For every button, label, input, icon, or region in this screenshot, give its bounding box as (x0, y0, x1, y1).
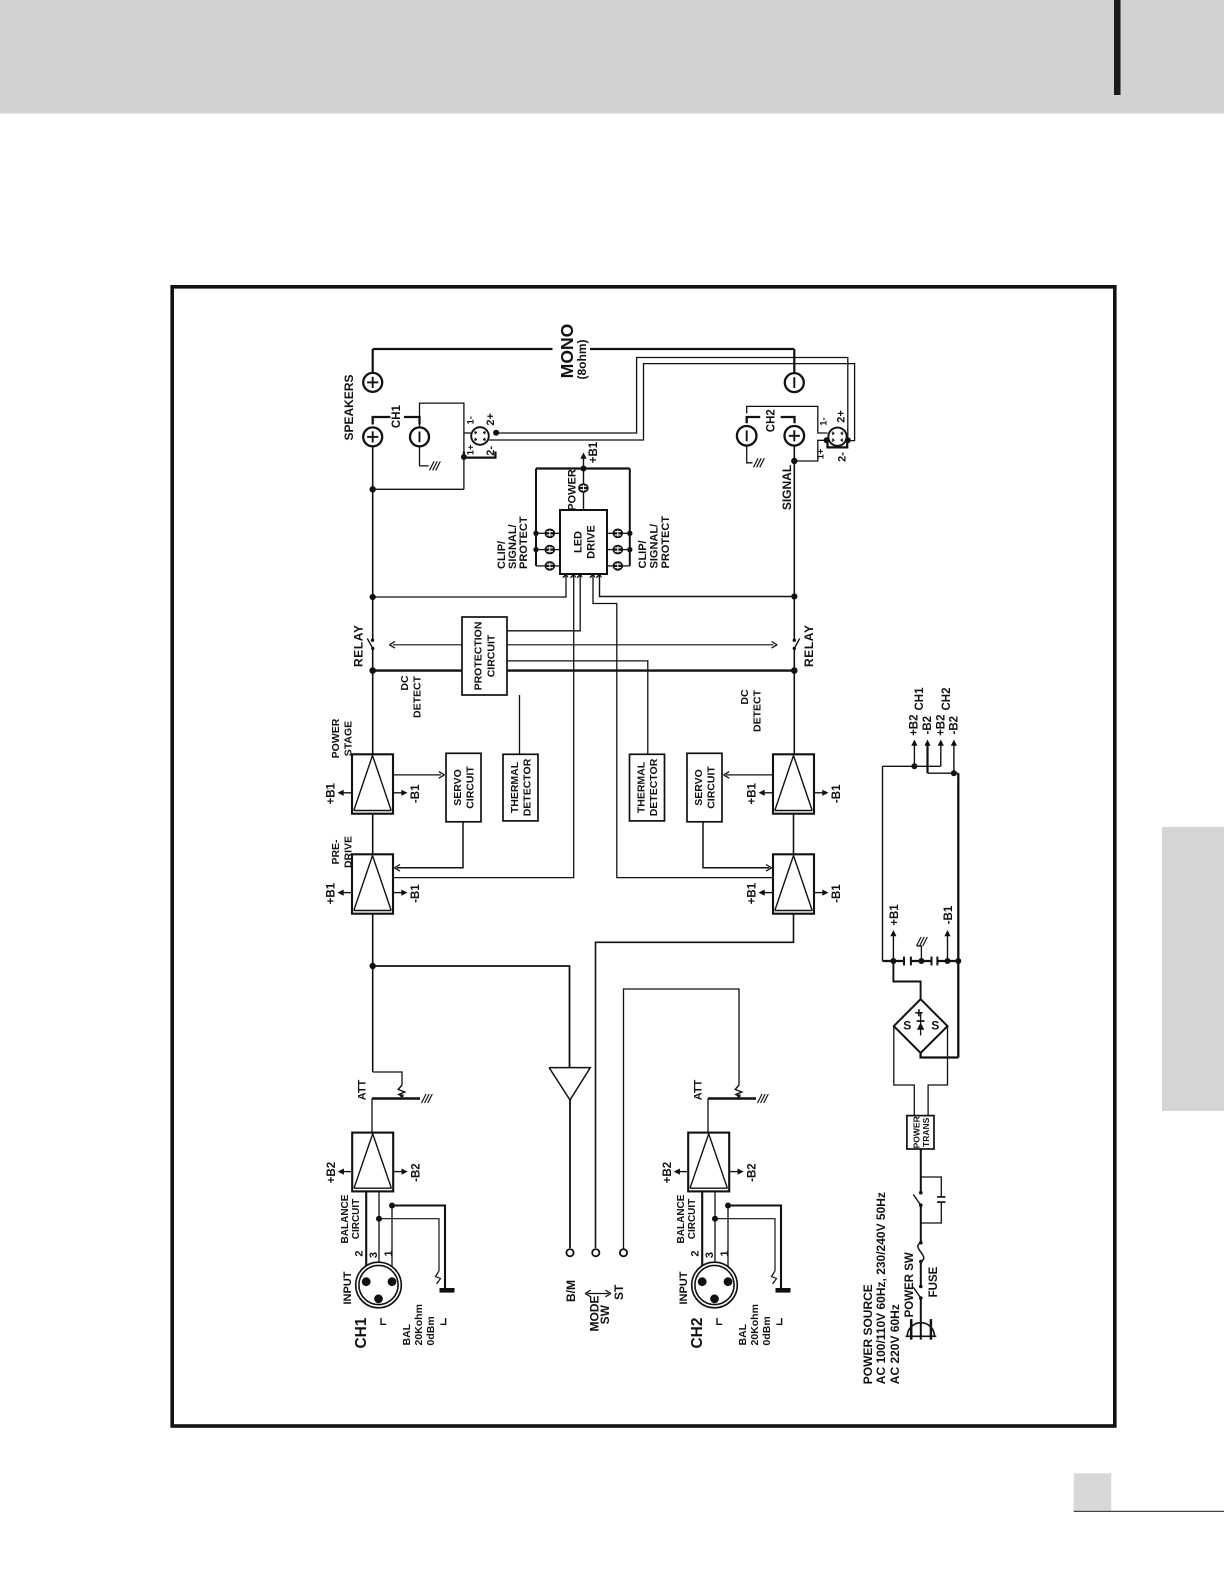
svg-text:TRANS: TRANS (921, 1117, 931, 1147)
svg-text:THERMAL: THERMAL (509, 761, 521, 813)
node pin3 junction CH1 (376, 1216, 382, 1222)
svg-text:+B2: +B2 (909, 714, 921, 735)
svg-text:PROTECTION: PROTECTION (472, 622, 484, 691)
svg-text:INPUT: INPUT (342, 1271, 354, 1304)
svg-text:SERVO: SERVO (452, 769, 464, 806)
wire bridge positive to rail (893, 961, 920, 999)
balance amp CH2 (688, 1133, 729, 1192)
node CH1 connector pin 2+ (493, 430, 499, 436)
thermal detector CH1 (503, 754, 538, 821)
svg-text:BALANCE: BALANCE (676, 1194, 687, 1243)
LED CH1 indicator 3 (536, 565, 545, 567)
wire LED left rail (535, 469, 537, 566)
jack ground plate CH1 (440, 1288, 455, 1293)
svg-text:-B1: -B1 (943, 905, 955, 924)
svg-text:POWER: POWER (911, 1116, 921, 1148)
wire CH2 signal to relay (793, 597, 795, 641)
svg-text:3: 3 (368, 1252, 380, 1258)
ground supply center tap (917, 937, 922, 946)
wire transformer primary (920, 1149, 922, 1193)
footer rule line (1074, 1510, 1224, 1512)
wire balance to XLR pin3 CH1 (378, 1191, 380, 1294)
svg-text:AC 220V 60Hz: AC 220V 60Hz (888, 1304, 902, 1384)
svg-text:CIRCUIT: CIRCUIT (687, 1199, 698, 1240)
svg-text:POWER: POWER (566, 469, 578, 511)
svg-text:RELAY: RELAY (351, 624, 365, 667)
wire mono to CH2 minus terminal (793, 349, 795, 373)
svg-text:CH2: CH2 (941, 687, 953, 710)
bracket CH2 panel left (747, 417, 761, 423)
wire to power switch (920, 1262, 922, 1287)
wire transformer secondary left (894, 1026, 915, 1116)
node +B2 CH1 junction (911, 763, 917, 769)
svg-text:20Kohm: 20Kohm (749, 1304, 761, 1345)
LED CH2 indicator 2 (607, 549, 613, 551)
wire attenuator to balance amp CH1 (371, 1099, 373, 1135)
node supply ground junction (918, 958, 924, 964)
svg-text:THERMAL: THERMAL (635, 761, 647, 813)
wire -B2 bus (928, 772, 959, 774)
wire balance to XLR pin2 CH1 (365, 1191, 367, 1278)
wire CH2 interstage (793, 814, 795, 855)
svg-text:RELAY: RELAY (802, 624, 816, 667)
svg-text:DRIVE: DRIVE (585, 525, 597, 559)
wire CH2 - to chassis ground (747, 446, 753, 463)
wire protection to LED drive pin3 (507, 574, 580, 631)
bracket CH2 panel right (781, 417, 795, 423)
svg-text:B/M: B/M (564, 1280, 578, 1302)
svg-text:2: 2 (690, 1250, 702, 1256)
wire CH2 panel line to connector 1- (747, 406, 828, 433)
wire CH1 + terminal down to signal line (372, 446, 374, 597)
svg-text:CH2: CH2 (689, 1317, 706, 1348)
svg-text:1: 1 (383, 1250, 395, 1256)
wire MONO bus lower (590, 348, 794, 350)
speaker terminal CH1 - (410, 427, 429, 446)
svg-text:-B1: -B1 (831, 884, 843, 903)
wire CH2 + junction to connector 1+ (794, 440, 824, 461)
svg-text:3: 3 (704, 1252, 716, 1258)
svg-text:PROTECT: PROTECT (660, 516, 672, 569)
speaker terminal CH1 + (363, 427, 382, 446)
svg-text:1-: 1- (818, 417, 829, 425)
switch POWER SW (919, 1285, 923, 1289)
svg-text:S: S (931, 1019, 939, 1033)
svg-text:POWER SOURCE: POWER SOURCE (861, 1284, 875, 1384)
node CH1 relay top junction (370, 594, 376, 600)
connector CH1 speakon (471, 427, 489, 445)
attenuator ATT CH1 (398, 1085, 405, 1097)
LED drive block (560, 510, 607, 574)
svg-text:SIGNAL: SIGNAL (780, 465, 794, 510)
wire supply ground stub (917, 946, 921, 961)
svg-text:-B2: -B2 (922, 716, 934, 735)
svg-text:DETECT: DETECT (751, 689, 763, 732)
wire CH2 node to LED drive pin5 (600, 574, 795, 597)
bracket CH1 panel right (404, 417, 420, 425)
wire CH2 power stage to servo (726, 774, 773, 776)
wire +B2 rail vertical (882, 766, 884, 961)
node -B2 CH2 junction (951, 770, 957, 776)
svg-text:+B2: +B2 (935, 714, 947, 735)
node +B1 junction (890, 958, 896, 964)
wire -B2 CH2 arrow (953, 744, 955, 773)
svg-text:+B2: +B2 (662, 1162, 674, 1183)
svg-text:LED: LED (572, 531, 584, 553)
svg-text:CH1: CH1 (914, 687, 926, 711)
wire CH1 pre-drive output (372, 914, 374, 1072)
capacitor C2 plates (931, 957, 933, 966)
svg-text:DETECT: DETECT (411, 675, 423, 718)
svg-text:+B1: +B1 (326, 882, 338, 904)
wire protection to CH2 thermal detector (507, 661, 648, 754)
svg-text:2+: 2+ (836, 410, 848, 423)
speaker terminal CH2 - (737, 426, 757, 446)
svg-text:ST: ST (612, 1284, 626, 1300)
svg-text:CH2: CH2 (765, 409, 777, 432)
wire -B2 CH1 arrow (926, 744, 928, 773)
protection circuit block (462, 617, 507, 695)
wire CH1 + junction to connector (373, 488, 464, 490)
mode switch contact pole (592, 1249, 599, 1256)
wire LED drive +B1 feed (583, 469, 585, 510)
bracket CH1 connector mount (464, 452, 496, 458)
wire CH1 - to chassis ground (420, 446, 429, 466)
wire -B1 rail vertical (957, 773, 959, 1057)
wire bridge negative to -B1 rail (921, 1053, 959, 1058)
pre-drive CH1 (352, 854, 393, 913)
svg-text:DC: DC (399, 675, 411, 691)
wire CH2 attenuator wiper feed (738, 1084, 740, 1086)
diagram frame (172, 287, 1115, 1426)
wire protection to CH1 thermal detector (519, 695, 521, 754)
bridge rectifier (894, 999, 948, 1053)
node CH1 relay DC junction (369, 667, 376, 674)
svg-text:CIRCUIT: CIRCUIT (705, 766, 717, 809)
svg-text:DC: DC (739, 689, 751, 705)
wire pin1 to ground plate CH1 (391, 1206, 393, 1278)
wire CH2 + terminal to signal line (793, 446, 795, 597)
svg-text:FUSE: FUSE (928, 1266, 940, 1297)
LED CH2 indicator 3 (607, 565, 613, 567)
svg-text:BAL: BAL (401, 1323, 413, 1345)
capacitor C1 plates (903, 957, 905, 966)
LED CH2 indicator 1 (607, 532, 613, 534)
svg-text:ATT: ATT (692, 1079, 704, 1100)
page header gray band (0, 0, 1224, 114)
svg-text:0dBm: 0dBm (761, 1316, 773, 1345)
svg-text:SERVO: SERVO (693, 769, 705, 806)
connector XLR INPUT CH2 (692, 1262, 738, 1308)
svg-text:+B1: +B1 (747, 782, 759, 804)
diode bridge center (920, 1014, 922, 1036)
bracket BAL right CH1 (440, 1318, 445, 1324)
LED CH1 indicator 2 (536, 549, 545, 551)
svg-text:-B1: -B1 (831, 784, 843, 803)
pre-drive CH2 (773, 854, 814, 913)
wire CH1 clip sense to LED pin2 (393, 574, 574, 878)
wire CH1 node to LED drive pin1 (373, 574, 566, 597)
svg-text:+B1: +B1 (889, 904, 901, 926)
LED drive bottom pins (563, 574, 566, 578)
svg-text:-B1: -B1 (410, 784, 422, 803)
node CH2 speaker + junction (791, 458, 797, 464)
wire CH2 pre-drive input from mode switch (596, 914, 794, 1248)
svg-text:2+: 2+ (485, 413, 497, 426)
wire pin1 to ground plate CH2 (727, 1206, 729, 1278)
bracket CH1 panel left (373, 417, 391, 425)
svg-text:SPEAKERS: SPEAKERS (342, 374, 356, 440)
svg-text:+B1: +B1 (747, 882, 759, 904)
node LED +B1 junction (581, 466, 587, 472)
svg-text:-B2: -B2 (746, 1163, 758, 1182)
fuse FUSE (918, 1243, 924, 1262)
wire balance to XLR pin3 CH2 (714, 1191, 716, 1294)
bracket BAL left CH1 (381, 1318, 386, 1324)
node CH1 inverter feed junction (370, 963, 376, 969)
node pin1 junction CH1 (389, 1203, 395, 1209)
wire pin3 to jack switch CH1 (379, 1219, 439, 1271)
power stage CH2 (773, 754, 814, 813)
wire CH1 power stage to servo (393, 774, 441, 776)
wire bridge link A (CH1 2+ to CH2 2+) (496, 358, 848, 441)
wire CH1 to bridging inverter (373, 966, 570, 1068)
node rail right end (955, 958, 961, 964)
wire CH1 servo to pre-drive (397, 822, 463, 868)
svg-text:1: 1 (719, 1250, 731, 1256)
jack ground plate CH2 (776, 1288, 791, 1293)
svg-text:DETECTOR: DETECTOR (648, 758, 660, 816)
bridge plus mark (915, 1012, 922, 1014)
LED power indicator (578, 483, 589, 493)
svg-text:S: S (903, 1019, 911, 1033)
bracket CH2 connector mount (828, 443, 848, 447)
node CH1 connector bracket junction (461, 454, 467, 460)
wire CH1 panel negative to connector 1- (420, 403, 464, 489)
wire attenuator to balance amp CH2 (707, 1099, 709, 1135)
header black bar (1114, 0, 1121, 95)
svg-text:20Kohm: 20Kohm (413, 1304, 425, 1345)
svg-text:2-: 2- (485, 446, 497, 456)
node CH2 connector pin 1+ (824, 437, 830, 443)
svg-text:CH1: CH1 (391, 404, 403, 428)
wire CH2 relay lower (793, 648, 795, 754)
svg-text:SW: SW (598, 1304, 612, 1324)
thermal detector CH2 (630, 754, 665, 821)
wire bridge link B (489, 364, 855, 441)
AC plug (907, 1323, 934, 1337)
wire CH1 interstage (372, 814, 374, 855)
footer gray square (1074, 1473, 1112, 1510)
svg-text:1-: 1- (466, 416, 477, 424)
wire protection to CH2 relay arrow (507, 644, 774, 646)
svg-text:0dBm: 0dBm (425, 1316, 437, 1345)
wire CH1 relay lower (372, 648, 374, 754)
svg-text:2-: 2- (836, 452, 848, 462)
wire mono to CH1 plus terminal (372, 349, 374, 373)
speaker terminal CH2 + (785, 426, 805, 446)
wire +B2 CH2 arrow (940, 744, 942, 766)
node CH2 connector pin 2+ (845, 437, 851, 443)
mode switch range arrow (587, 1293, 609, 1295)
speaker terminal SPEAKERS + (mono +) (363, 373, 382, 392)
wire +B2 CH1 arrow (913, 744, 915, 766)
wire LED right rail (629, 469, 631, 566)
svg-text:-B2: -B2 (949, 716, 961, 735)
svg-text:ATT: ATT (356, 1079, 368, 1100)
filter capacitor bank rail (883, 960, 905, 962)
node CH1 speaker + junction (370, 486, 376, 492)
connector XLR INPUT CH1 (356, 1262, 402, 1308)
svg-text:CIRCUIT: CIRCUIT (485, 634, 497, 677)
speaker terminal CH2 mono - (785, 373, 804, 392)
line filter loop (921, 1177, 942, 1197)
mode switch contact B/M (566, 1249, 573, 1256)
node -B1 junction (945, 958, 951, 964)
wire CH1 attenuator jog (373, 1072, 402, 1085)
svg-text:DETECTOR: DETECTOR (521, 758, 533, 816)
servo circuit CH1 (446, 753, 481, 822)
svg-text:CLIP/: CLIP/ (637, 540, 649, 568)
wire B2 bus CH1/CH2 + (883, 765, 941, 767)
svg-text:PRE-: PRE- (330, 839, 342, 865)
bridging inverter amp (549, 1068, 590, 1100)
wire balance to XLR pin2 CH2 (701, 1191, 703, 1278)
wire to AC plug (920, 1298, 922, 1340)
switch thermal breaker (919, 1191, 923, 1195)
power stage CH1 (352, 754, 393, 813)
wire CH2 servo to pre-drive (703, 822, 769, 868)
servo circuit CH2 (687, 753, 722, 822)
svg-text:+B1: +B1 (326, 782, 338, 804)
wire CH1 signal to relay (372, 597, 374, 640)
bracket BAL right CH2 (776, 1318, 781, 1324)
node pin1 junction CH2 (725, 1203, 731, 1209)
wire MONO bus upper (373, 348, 553, 350)
wire to fuse (920, 1205, 922, 1243)
wire inverter to B/M contact (569, 1100, 571, 1248)
svg-text:-B1: -B1 (410, 884, 422, 903)
svg-text:1+: 1+ (466, 444, 477, 455)
right margin gray block (1162, 827, 1224, 1111)
connector CH2 speakon (828, 428, 846, 446)
wire DC detect CH1 (373, 669, 462, 671)
svg-text:PROTECT: PROTECT (518, 516, 530, 569)
wire +B1 arrow (892, 935, 894, 961)
jack switch contact CH2 (772, 1271, 777, 1284)
svg-text:CIRCUIT: CIRCUIT (351, 1199, 362, 1240)
mode switch contact ST (620, 1249, 627, 1256)
wire CH2 clip sense from LED pin4 (593, 574, 773, 878)
wire +B1 arrow up (583, 457, 585, 469)
node CH2 relay top junction (791, 593, 797, 599)
LED CH1 indicator 1 (536, 532, 545, 534)
svg-text:AC 100/110V 60Hz, 230/240V 50H: AC 100/110V 60Hz, 230/240V 50Hz (874, 1192, 888, 1384)
wire transformer secondary right (928, 1026, 947, 1116)
ground CH1 speaker panel (430, 461, 435, 470)
svg-text:-B2: -B2 (410, 1163, 422, 1182)
svg-text:CIRCUIT: CIRCUIT (464, 766, 476, 809)
ground CH2 speaker panel (754, 458, 759, 467)
svg-text:POWER: POWER (330, 718, 342, 758)
balance amp CH1 (352, 1133, 393, 1192)
wire protection to CH1 relay arrow (393, 644, 462, 646)
svg-text:BAL: BAL (737, 1323, 749, 1345)
attenuator ATT CH2 (735, 1085, 742, 1097)
node CH2 relay DC junction (791, 667, 798, 674)
svg-text:2: 2 (354, 1250, 366, 1256)
svg-text:+B1: +B1 (588, 441, 600, 463)
relay CH2 (793, 639, 796, 642)
svg-text:STAGE: STAGE (342, 721, 354, 756)
svg-text:BALANCE: BALANCE (340, 1194, 351, 1243)
wire ST contact to CH2 attenuator (624, 989, 740, 1249)
transformer POWER TRANS (907, 1116, 934, 1149)
ground attenuator CH1 (422, 1094, 427, 1103)
svg-text:1+: 1+ (815, 448, 826, 459)
bracket BAL left CH2 (717, 1318, 722, 1324)
node pin3 junction CH2 (712, 1216, 718, 1222)
svg-text:MONO: MONO (557, 324, 577, 378)
svg-text:+B2: +B2 (326, 1162, 338, 1183)
svg-text:SIGNAL/: SIGNAL/ (648, 524, 660, 569)
svg-text:POWER SW: POWER SW (904, 1252, 916, 1317)
svg-text:INPUT: INPUT (678, 1271, 690, 1304)
wire stub connector CH1 pin 1- (464, 432, 472, 434)
jack switch contact CH1 (436, 1271, 441, 1284)
relay CH1 (371, 639, 374, 642)
wire DC detect CH2 (507, 669, 794, 671)
wire LED top bus (536, 467, 630, 469)
svg-text:CH1: CH1 (353, 1317, 370, 1348)
svg-text:(8ohm): (8ohm) (575, 340, 589, 380)
ground attenuator CH2 (758, 1094, 763, 1103)
wire -B1 arrow (947, 935, 949, 961)
capacitor line filter (937, 1196, 945, 1198)
wire pin3 to jack switch CH2 (715, 1219, 775, 1271)
